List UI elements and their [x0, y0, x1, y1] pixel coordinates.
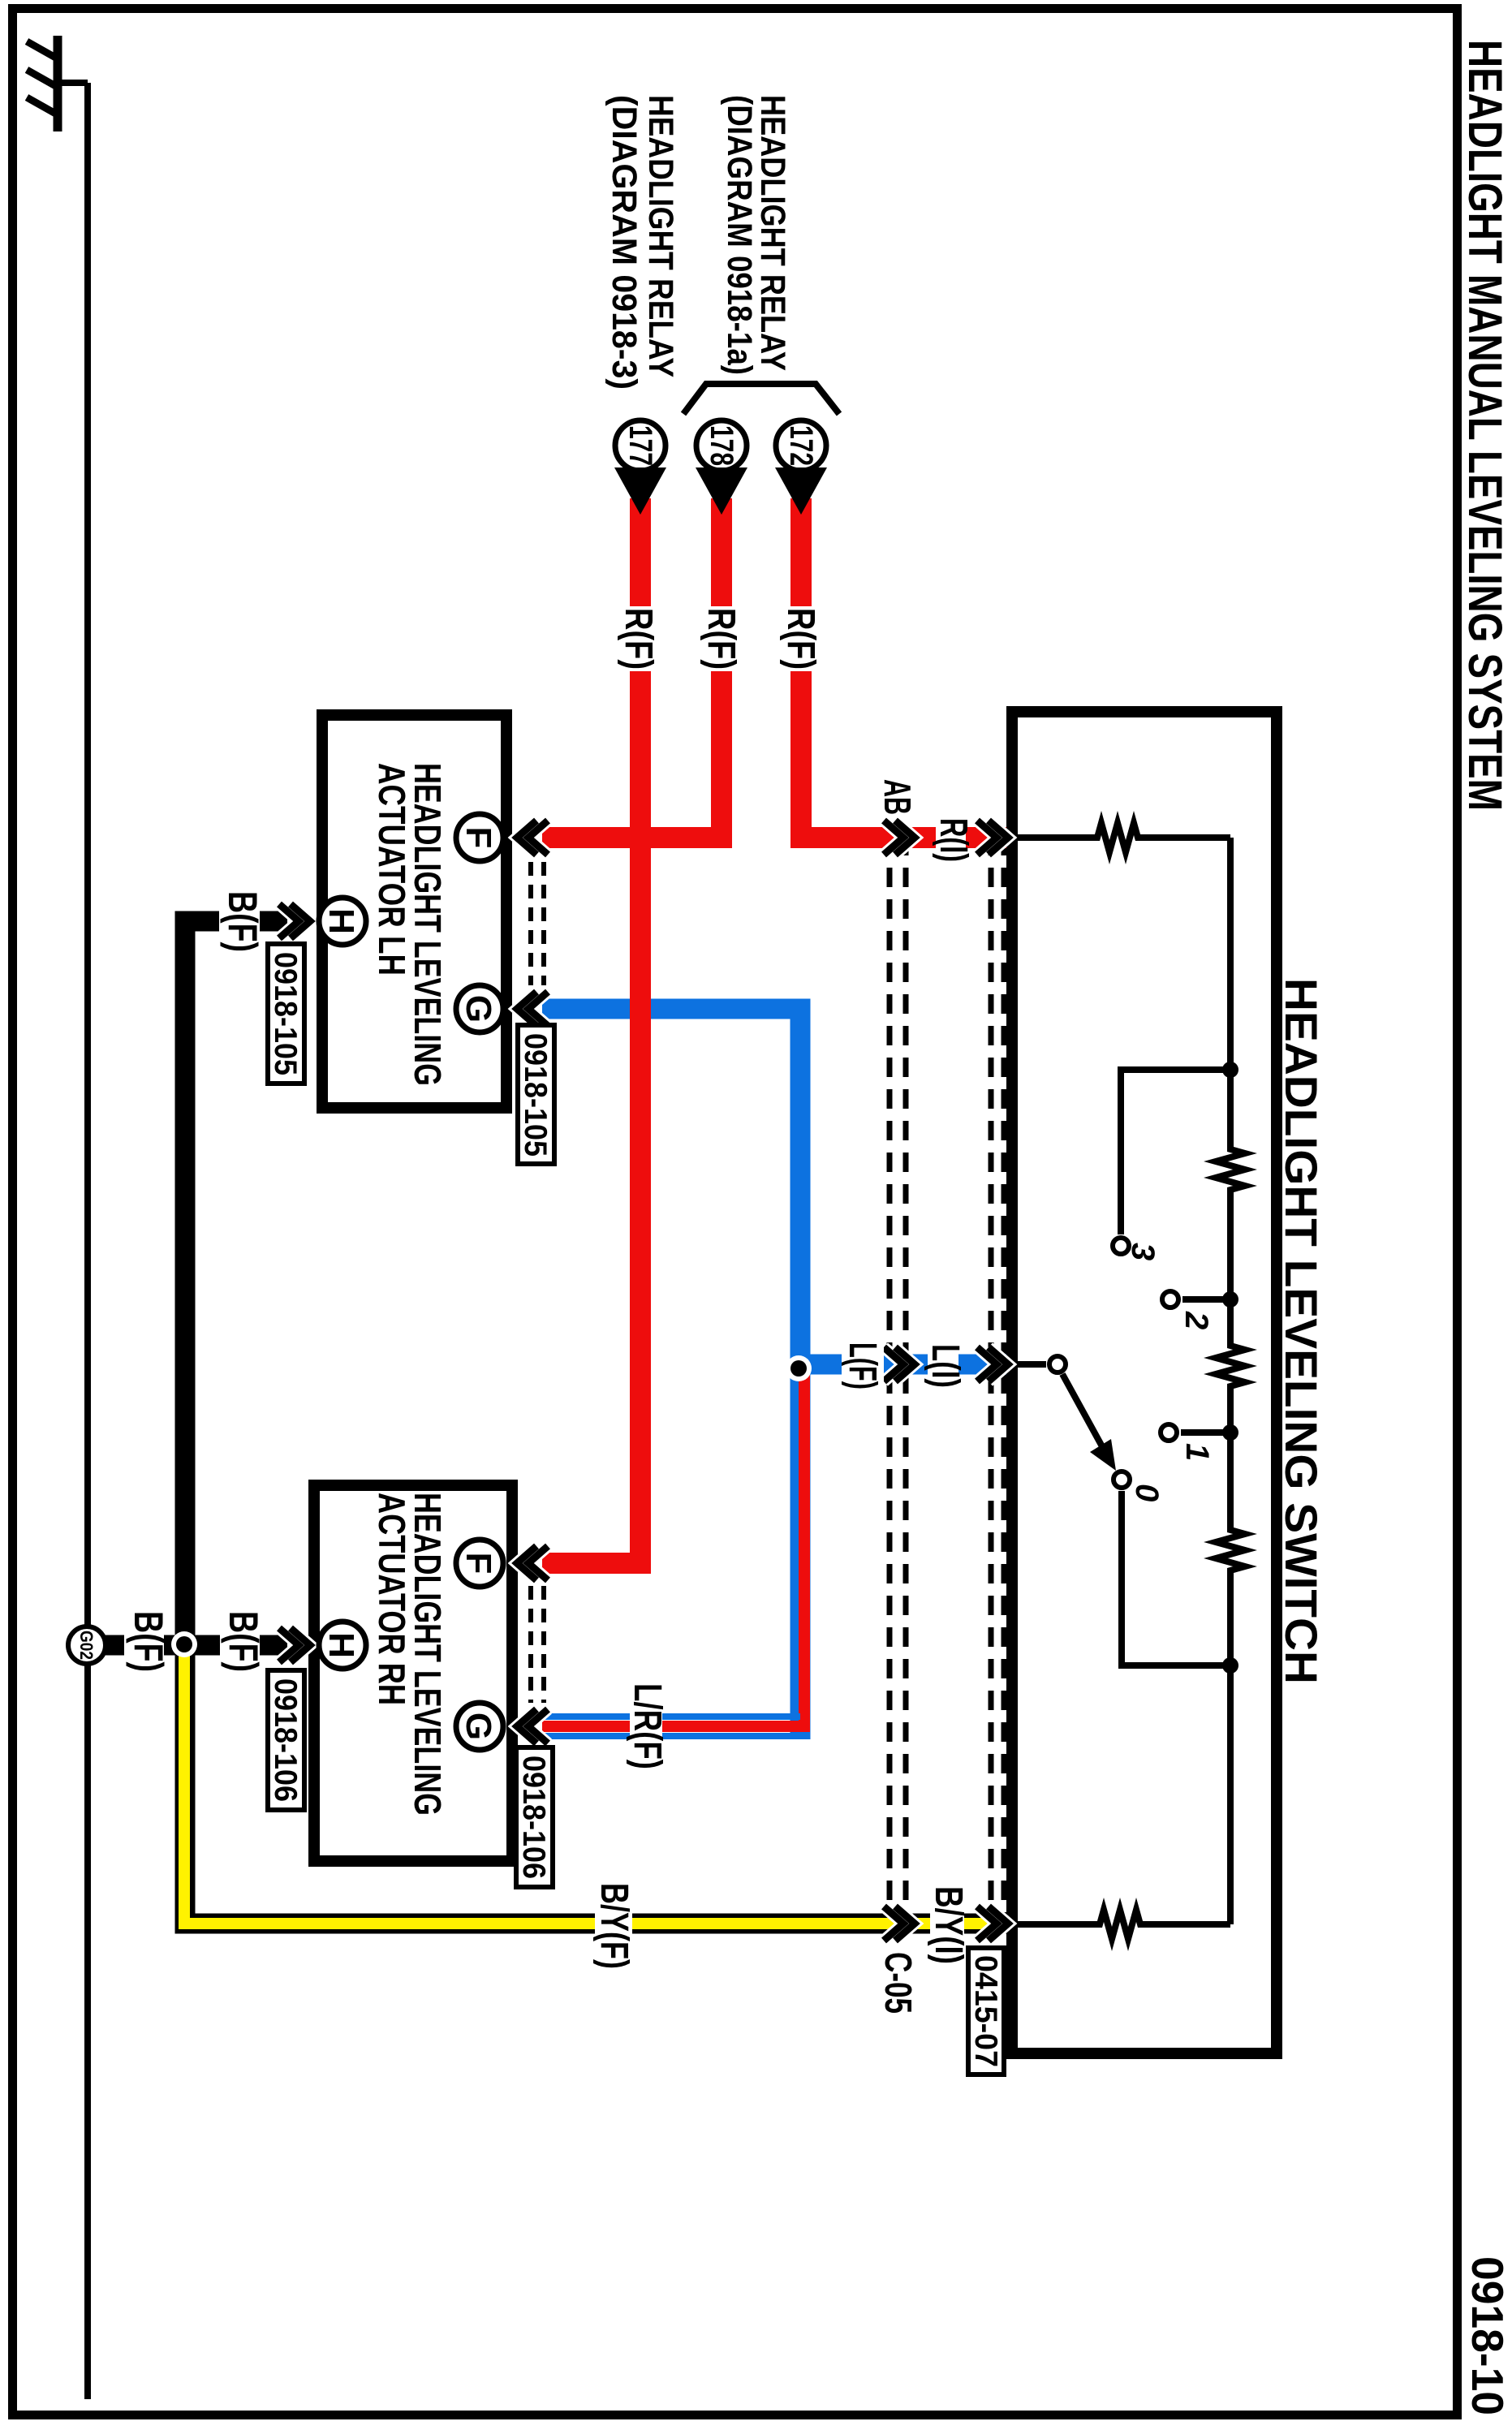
wire label L(F)	[842, 1341, 884, 1391]
svg-text:B(F): B(F)	[126, 1611, 171, 1672]
connector line C-05 (dashed pair)	[890, 836, 906, 1933]
svg-text:B(F): B(F)	[221, 1611, 266, 1672]
ground symbol	[27, 36, 88, 131]
svg-text:F: F	[459, 1553, 498, 1575]
node dot (contact 2)	[1222, 1291, 1238, 1308]
chevron R(I) at 0415-07 (up)	[977, 821, 1008, 855]
svg-text:0918-105: 0918-105	[268, 952, 303, 1075]
wire B(F) junction up to RH actuator H (two pieces, label gap)	[174, 1635, 220, 1656]
svg-text:0: 0	[1129, 1484, 1165, 1502]
svg-text:1: 1	[1179, 1443, 1215, 1461]
connector label 0918-105 at H LH	[268, 944, 304, 1084]
connector label 0415-07	[968, 1948, 1004, 2075]
svg-text:G: G	[459, 1713, 498, 1740]
svg-text:G02: G02	[76, 1631, 97, 1660]
svg-text:R(F): R(F)	[700, 608, 743, 670]
svg-text:ACTUATOR LH: ACTUATOR LH	[371, 763, 413, 976]
chevron at RH actuator G pin (down)	[517, 1709, 548, 1743]
connector dashed link F-G pins LH actuator	[531, 862, 544, 985]
contact 1 branch	[1181, 1429, 1230, 1436]
svg-text:HEADLIGHT RELAY: HEADLIGHT RELAY	[641, 95, 680, 377]
connector label 0918-106 at G RH	[516, 1747, 553, 1887]
pin G LH	[456, 985, 503, 1032]
pin H LH	[319, 898, 366, 945]
wire L(I) blue junction to switch	[800, 1355, 1012, 1375]
svg-text:HEADLIGHT RELAY: HEADLIGHT RELAY	[753, 95, 792, 371]
chevron at LH actuator F pin (down)	[517, 821, 548, 855]
wire B(F) junction down to G02 (two pieces, label gap)	[164, 1635, 176, 1656]
wire label B/Y(I)	[930, 1885, 964, 1966]
svg-text:0415-07: 0415-07	[968, 1955, 1003, 2067]
svg-text:B/Y(F): B/Y(F)	[592, 1883, 635, 1969]
svg-text:0918-106: 0918-106	[268, 1678, 303, 1802]
chevron at LH actuator H pin (up)	[279, 904, 310, 938]
headlight leveling actuator LH box	[322, 715, 506, 1108]
pin G RH	[456, 1703, 503, 1750]
wire L(F) blue from LH actuator G to junction	[542, 1009, 800, 1739]
wiper pivot	[1049, 1356, 1066, 1372]
relay feed arrow 172	[775, 467, 827, 515]
connector line 0415-07 (dashed pair)	[991, 836, 1004, 1933]
wire R(F) from relay 178 (red) to LH actuator F	[542, 498, 722, 838]
svg-text:0918-10: 0918-10	[1462, 2256, 1512, 2415]
wire label L(I)	[928, 1341, 958, 1391]
svg-text:L(I): L(I)	[924, 1344, 967, 1388]
wire R(F) from relay 177 (red) to RH actuator F	[542, 498, 640, 1563]
chevron at RH actuator F pin (down)	[517, 1546, 548, 1580]
resistor (between 3 and 2)	[1216, 1144, 1245, 1200]
svg-text:172: 172	[783, 425, 819, 466]
wire B/Y(F) yellow core	[184, 1653, 1011, 1924]
svg-text:H: H	[321, 1632, 361, 1658]
chevron at LH actuator G pin (down)	[517, 992, 548, 1026]
switch right leg with resistor to B/Y	[1018, 1921, 1230, 1928]
svg-text:F: F	[459, 827, 498, 849]
node dot (contact 3 tee)	[1222, 1062, 1238, 1078]
svg-text:(DIAGRAM 0918-1a): (DIAGRAM 0918-1a)	[720, 95, 759, 375]
wire B(F) LH actuator H upper piece	[260, 911, 287, 932]
relay feed circle 177	[615, 420, 666, 471]
switch internal chain line	[1227, 838, 1234, 1924]
node dot (contact 0 tee)	[1222, 1657, 1238, 1674]
wire label B/Y(F)	[595, 1881, 632, 1971]
chevron L at C-05 (up)	[884, 1347, 915, 1381]
contact 3 branch	[1121, 1070, 1230, 1234]
svg-text:AB: AB	[877, 779, 919, 815]
svg-text:L/R(F): L/R(F)	[626, 1683, 669, 1769]
relay feed arrow 177	[614, 467, 666, 515]
wire R(F) from relay 172 (red) to switch R(I)	[801, 498, 1012, 838]
wire label L/R(F)	[630, 1682, 662, 1771]
svg-text:B(F): B(F)	[220, 891, 265, 952]
contact 2 branch	[1182, 1296, 1230, 1303]
node dot (contact 1)	[1222, 1424, 1238, 1441]
junction node dot on L(F) (white ring)	[786, 1355, 812, 1381]
svg-text:177: 177	[622, 425, 658, 466]
svg-text:B/Y(I): B/Y(I)	[927, 1886, 970, 1964]
chevron R(I) at C-05 (up)	[884, 821, 915, 855]
svg-text:0918-106: 0918-106	[516, 1756, 551, 1879]
resistor (between 2 and 1)	[1216, 1341, 1245, 1394]
svg-text:G: G	[459, 995, 498, 1023]
svg-text:HEADLIGHT MANUAL LEVELING SYST: HEADLIGHT MANUAL LEVELING SYSTEM	[1458, 40, 1511, 811]
svg-text:(DIAGRAM 0918-3): (DIAGRAM 0918-3)	[605, 95, 644, 390]
relay feed circle 178	[696, 420, 747, 471]
ground point G02	[68, 1626, 106, 1664]
connector label 0918-106 at H RH	[268, 1670, 304, 1810]
headlight leveling actuator RH box	[314, 1485, 512, 1861]
pin H RH	[319, 1622, 366, 1669]
svg-text:3: 3	[1125, 1243, 1161, 1260]
wire B(F)/B/Y(F) black main run and B/Y outline	[185, 921, 1012, 1924]
resistor (between 1 and 0)	[1216, 1525, 1245, 1578]
svg-text:R(F): R(F)	[617, 608, 660, 670]
connector label 0918-105 at G LH	[518, 1025, 554, 1164]
chevron at RH actuator H pin (up)	[279, 1628, 310, 1662]
svg-text:0918-105: 0918-105	[518, 1033, 553, 1157]
chevron L at 0415-07 (up)	[977, 1347, 1008, 1381]
headlight leveling switch box	[1012, 712, 1277, 2053]
contact 0 branch	[1122, 1491, 1230, 1665]
wire label R(F) on 178	[704, 606, 736, 671]
wire label R(F) on 172	[783, 606, 816, 671]
svg-text:H: H	[321, 908, 361, 934]
wire label R(I)	[936, 815, 966, 862]
pin F RH	[456, 1540, 503, 1587]
svg-text:C-05: C-05	[877, 1952, 920, 2014]
chevron B/Y at 0415-07 (up)	[977, 1907, 1008, 1941]
chevron B/Y at C-05 (up)	[884, 1907, 915, 1941]
pin F LH	[456, 814, 503, 861]
resistor (input)	[1092, 823, 1145, 852]
switch internal R(I) line with resistor	[1018, 834, 1230, 841]
svg-text:R(F): R(F)	[779, 608, 822, 670]
wire label R(F) on 177	[621, 606, 653, 671]
wire L/R(F) red stripe over blue to RH actuator G	[542, 1368, 804, 1726]
svg-text:178: 178	[704, 425, 739, 466]
svg-text:HEADLIGHT LEVELING SWITCH: HEADLIGHT LEVELING SWITCH	[1276, 978, 1327, 1684]
relay feed arrow 178	[696, 467, 747, 515]
bracket grouping 178 and 172	[683, 384, 839, 414]
svg-text:L(F): L(F)	[841, 1342, 884, 1389]
connector dashed link F-G pins RH actuator	[531, 1586, 544, 1703]
svg-text:ACTUATOR RH: ACTUATOR RH	[371, 1493, 413, 1705]
svg-text:R(I): R(I)	[932, 818, 975, 862]
junction node dot (white ring)	[171, 1631, 197, 1657]
wiper arm with arrow	[1062, 1374, 1108, 1457]
ground wire (bottom, from ground symbol to right)	[84, 83, 91, 2399]
svg-text:2: 2	[1178, 1311, 1214, 1329]
relay feed circle 172	[776, 420, 826, 471]
